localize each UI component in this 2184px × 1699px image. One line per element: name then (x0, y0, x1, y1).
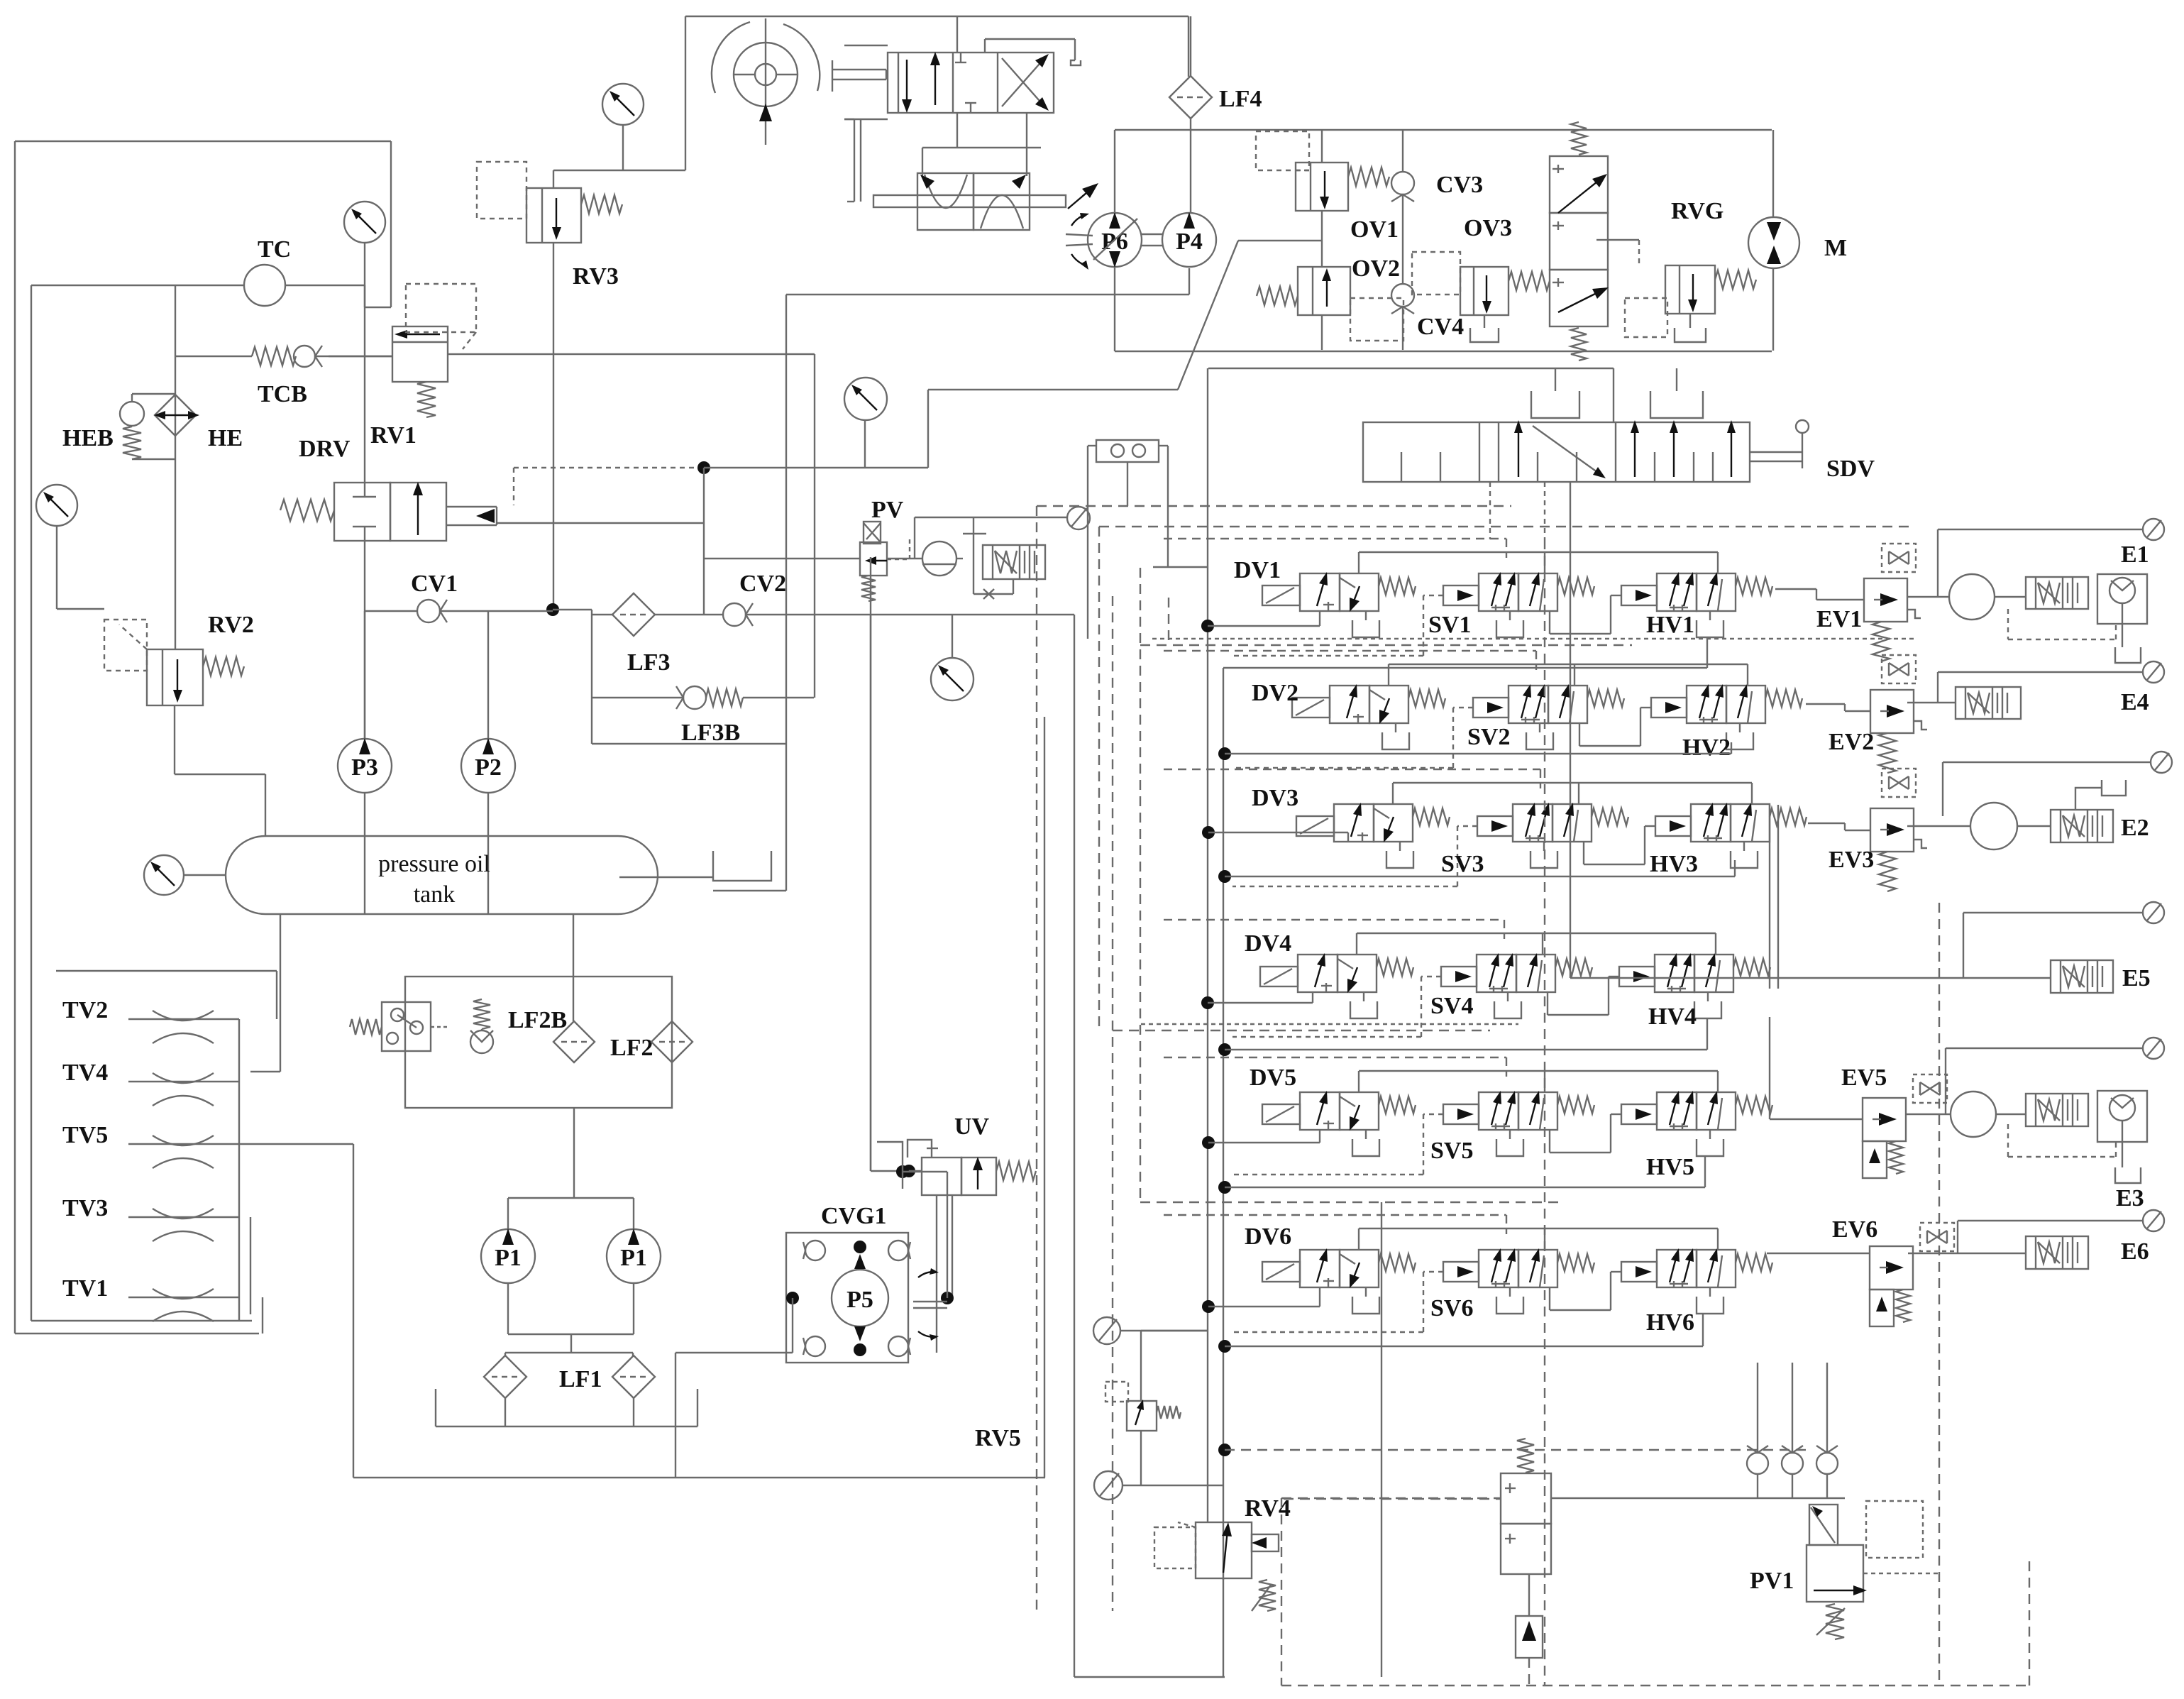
check valve CV4 (1391, 284, 1414, 314)
wire DV6-SV6 pilot dashed (1232, 1272, 1443, 1332)
svg-text:EV1: EV1 (1816, 606, 1862, 632)
wire HV2-EV2 (1806, 704, 1870, 711)
wire dashed v1647 (1168, 598, 1169, 640)
actuator E6 (2026, 1236, 2088, 1269)
throttle TV1 (128, 1289, 239, 1321)
valve HV3 (1691, 803, 1807, 842)
svg-text:RVG: RVG (1671, 198, 1724, 224)
label M (1824, 235, 1847, 261)
node bus1 (1218, 747, 1231, 760)
node UV (903, 1165, 915, 1177)
wire LF3 box (592, 610, 786, 744)
valve HV2 pilot (1651, 698, 1687, 717)
tank pressure oil tank (226, 836, 658, 914)
component P6 fork (1066, 213, 1093, 270)
wire DRV link (497, 522, 704, 524)
valve OV2 (1257, 267, 1403, 341)
check valve CV1 (417, 600, 447, 622)
wire pv1 line left (1281, 1498, 1501, 1686)
wire TV verticals (239, 1019, 263, 1334)
wire swash-P6 arrow (1068, 183, 1098, 209)
svg-text:DV6: DV6 (1245, 1224, 1291, 1250)
wire row5 dashed box (1164, 1057, 1506, 1077)
node bus6 (1202, 1136, 1215, 1149)
wire E5 top (1963, 913, 2143, 978)
valve PV (860, 522, 910, 601)
check valve CV3 (1391, 172, 1414, 202)
valve SV2 (1509, 684, 1624, 723)
wire LF1 tank (436, 1389, 697, 1426)
wire drain y2082 (353, 1477, 1045, 1478)
valve HV1 pilot (1621, 585, 1657, 605)
valve EV1 (1864, 544, 1921, 661)
valve DV4 (1260, 953, 1413, 1018)
node bus9 (1218, 1340, 1231, 1353)
pump P1b (607, 1228, 661, 1283)
svg-text:E4: E4 (2121, 689, 2149, 715)
wire feed1 (1208, 611, 1320, 626)
wire y493 (1115, 351, 1772, 352)
wire HV3 bracket (1731, 842, 1758, 868)
valve RVG relief (1625, 240, 1756, 342)
svg-text:CV1: CV1 (411, 571, 458, 597)
wire SDV drops (1490, 482, 1570, 978)
wire x1227 (870, 615, 871, 1171)
wire P6 bottom (1114, 267, 1115, 351)
wire cyl top (956, 16, 958, 53)
valve EV2 (1870, 655, 1927, 773)
label SV3 (1441, 851, 1484, 877)
wire top loop (685, 16, 1188, 170)
wire TV box top (56, 971, 277, 1019)
wire tank right (619, 876, 713, 878)
label tank1 (378, 851, 490, 877)
wire dashed h909 (1140, 644, 1632, 646)
wire DV3-SV3 pilot dashed (1232, 826, 1477, 886)
wire P6 top (1114, 130, 1115, 213)
filter LF2b (651, 1021, 693, 1062)
wire row2 feedback (1389, 664, 1748, 686)
svg-text:OV2: OV2 (1352, 255, 1400, 282)
wire TC line (31, 285, 365, 286)
check valve CV2 (723, 603, 1074, 626)
label TV3 (62, 1195, 108, 1221)
wire EV6 feed (1767, 1253, 1870, 1254)
wire P1 manifold (508, 1198, 634, 1228)
wire feed6 (1208, 1287, 1320, 1307)
valve RV3 (477, 162, 622, 243)
wire ret6 (1225, 1314, 1703, 1346)
wire E3 bracket (2115, 1142, 2141, 1183)
label RV3 (573, 263, 619, 290)
wire ret1 (1223, 637, 1707, 668)
component PV ebox (974, 545, 1045, 599)
gauge G6 (931, 615, 974, 700)
label DV4 (1245, 930, 1291, 957)
valve SV2 pilot (1473, 698, 1509, 717)
component TC (244, 265, 285, 306)
label RVG (1671, 198, 1724, 224)
valve DV2 (1292, 684, 1445, 749)
label E2 (2121, 815, 2149, 841)
wire SV4 bracket (1494, 992, 1521, 1018)
label HV2 (1682, 735, 1731, 761)
svg-text:TV1: TV1 (62, 1275, 108, 1302)
actuator E2 (2051, 810, 2113, 842)
label CV3 (1436, 172, 1483, 198)
valve RV5 (1105, 1331, 1208, 1485)
wire SV4-HV4 link (1548, 977, 1619, 1015)
wire LF3B line (592, 697, 814, 698)
label EV2 (1829, 729, 1874, 755)
svg-text:E5: E5 (2122, 965, 2151, 991)
wire row6 feedback (1359, 1228, 1718, 1250)
wire OV2 down (1321, 315, 1323, 350)
node CVG1 left (786, 1292, 799, 1304)
label TV4 (62, 1060, 108, 1086)
check valve LF3B (676, 686, 743, 709)
svg-text:P1: P1 (495, 1245, 522, 1271)
test point T1 (1067, 507, 1090, 529)
valve OV3 (1412, 252, 1550, 342)
label TV5 (62, 1122, 108, 1148)
wire RV1 line (329, 285, 392, 483)
wire dashed v2733 (1938, 903, 1940, 1686)
wire feed4 (1208, 992, 1313, 1003)
wire row4 feedback (1357, 933, 1716, 955)
wire outer frame left (15, 141, 391, 1334)
label EV1 (1816, 606, 1862, 632)
throttle TV5 (128, 1136, 239, 1168)
valve DV5 (1262, 1091, 1416, 1156)
filter LF2a (553, 1021, 595, 1062)
test point TE5 (2143, 902, 2164, 923)
label TV2 (62, 997, 108, 1023)
pump P4 (1162, 212, 1216, 267)
label DV5 (1250, 1065, 1296, 1091)
label SV1 (1428, 612, 1471, 638)
valve RV1 (392, 284, 476, 417)
svg-text:OV1: OV1 (1350, 216, 1399, 243)
svg-text:RV2: RV2 (208, 612, 254, 638)
check valve CVG1c (803, 1336, 825, 1356)
label TC (258, 236, 291, 263)
wire bus2 (1223, 668, 1224, 1580)
component SDV lever (1750, 420, 1809, 468)
wire PV feed (704, 558, 860, 559)
valve SV4 (1477, 953, 1592, 992)
wire P3 up (364, 611, 365, 739)
label LF4 (1219, 86, 1262, 112)
svg-text:E3: E3 (2116, 1185, 2144, 1211)
svg-text:SV1: SV1 (1428, 612, 1471, 638)
check valve CVG1a (803, 1241, 825, 1260)
valve EV3 (1870, 769, 1927, 891)
wire CV1 line (365, 610, 592, 611)
wire E6 feed (1908, 1253, 2026, 1254)
svg-text:CV4: CV4 (1417, 314, 1464, 340)
svg-text:LF2: LF2 (610, 1035, 653, 1061)
node CVG1 right (941, 1292, 954, 1304)
svg-text:TCB: TCB (258, 381, 307, 407)
component CVG1 box (786, 1233, 908, 1363)
check valve CVG1d (888, 1336, 910, 1356)
wire ret3 (1225, 860, 1735, 876)
wire SV1 bracket (1496, 611, 1523, 637)
wire TCB line (175, 356, 392, 357)
label LF3B (681, 720, 740, 746)
valve SV6 (1479, 1248, 1594, 1287)
wire diag P4 (1178, 241, 1322, 390)
valve DV6 (1262, 1248, 1416, 1314)
wire dashed v2177 (1544, 539, 1545, 1686)
wire EV5 feed (1770, 1017, 1863, 1119)
wire row1 dashed box (1164, 539, 1506, 558)
wire HV1 bracket (1697, 611, 1724, 637)
wire rod (832, 60, 886, 92)
wire feed3 (1208, 832, 1348, 842)
wire CVG1 left down (675, 1298, 793, 1478)
wire RV4 dashed (1284, 1498, 1501, 1500)
wire CV4 down (1402, 307, 1403, 350)
node bus10 (1218, 1444, 1231, 1456)
wire E3 dashed (2008, 1124, 2116, 1157)
component shuttle block (1088, 440, 1208, 639)
motor M (1748, 130, 1799, 351)
label UV (954, 1114, 990, 1140)
wire LF2 box (405, 977, 672, 1108)
svg-text:HV4: HV4 (1648, 1004, 1697, 1030)
svg-text:P6: P6 (1101, 229, 1128, 255)
valve SDV (1363, 420, 1750, 482)
label CV1 (411, 571, 458, 597)
svg-text:TC: TC (258, 236, 291, 263)
valve bottom 2pos (1501, 1439, 1551, 1686)
svg-text:PV1: PV1 (1750, 1568, 1794, 1594)
component E1 check (2097, 574, 2147, 624)
tank bracket right (713, 851, 771, 881)
component rod bars (844, 119, 861, 202)
node bus7 (1218, 1181, 1231, 1194)
label LF3 (627, 649, 670, 676)
svg-text:E2: E2 (2121, 815, 2149, 841)
wire y415 (786, 294, 1189, 295)
wire DV2-SV2 pilot dashed (1232, 708, 1473, 768)
valve SV3 pilot (1477, 816, 1513, 836)
valve HV6 (1657, 1248, 1772, 1287)
label OV2 (1352, 255, 1400, 282)
node bus0 (1201, 620, 1214, 632)
label LF2B (508, 1007, 567, 1033)
label DRV (299, 436, 351, 462)
wire row3 feedback (1393, 783, 1752, 804)
valve SV4 pilot (1441, 967, 1477, 986)
filter LF1a (484, 1356, 526, 1398)
wire CV3 line (1402, 130, 1403, 284)
component breather (350, 1002, 447, 1051)
svg-text:DV1: DV1 (1234, 557, 1281, 583)
valve EV5 (1863, 1074, 1947, 1178)
svg-text:SV6: SV6 (1430, 1295, 1473, 1321)
label E1 (2121, 541, 2149, 568)
wire E6 top (1958, 1221, 2143, 1253)
svg-text:RV3: RV3 (573, 263, 619, 290)
test point TE4 (2143, 661, 2164, 683)
svg-text:LF3: LF3 (627, 649, 670, 676)
svg-text:SV3: SV3 (1441, 851, 1484, 877)
svg-text:EV6: EV6 (1832, 1216, 1877, 1243)
wire bus header (1208, 368, 1614, 422)
pump P1a (481, 1228, 535, 1283)
valve DV3 (1296, 803, 1450, 868)
wire PV tee (703, 468, 705, 615)
label DV2 (1252, 680, 1298, 706)
valve HV6 pilot (1621, 1262, 1657, 1282)
wire HV4 bracket (1694, 992, 1721, 1018)
label TV1 (62, 1275, 108, 1302)
label CVG1 (821, 1203, 887, 1229)
wire tank bottom right (573, 914, 574, 977)
wire row2 dashed box (1164, 651, 1536, 670)
valve HV4 pilot (1619, 967, 1655, 986)
throttle TV3 (128, 1209, 239, 1241)
valve DRV (280, 482, 497, 541)
label SV2 (1467, 724, 1510, 750)
wire HV1-EV1 (1775, 589, 1864, 600)
label E6 (2121, 1238, 2149, 1265)
label EV6 (1832, 1216, 1877, 1243)
filter LF4 (1169, 16, 1212, 213)
wire row1 feedback (1359, 552, 1718, 573)
accumulator A2 (1970, 803, 2017, 849)
valve RV4 (1154, 1522, 1279, 1611)
node bus3 (1218, 870, 1231, 883)
label RV2 (208, 612, 254, 638)
wire dashed h1443 (1141, 1023, 1518, 1025)
valve SV5 pilot (1443, 1104, 1479, 1124)
wire SV5-HV5 link (1550, 1114, 1621, 1153)
check valve LF2B (470, 999, 493, 1053)
wire RV2 out (175, 705, 265, 836)
actuator E5 (2051, 960, 2113, 993)
wire feed5 (1208, 1130, 1320, 1143)
label OV3 (1464, 215, 1512, 241)
svg-text:EV2: EV2 (1829, 729, 1874, 755)
check valve CVG1b (888, 1241, 910, 1260)
label EV3 (1829, 847, 1874, 873)
wire tpoint line (915, 517, 1067, 559)
svg-text:HEB: HEB (62, 425, 114, 451)
svg-text:DV2: DV2 (1252, 680, 1298, 706)
component PV accumulator (922, 541, 956, 576)
valve SV1 pilot (1443, 585, 1479, 605)
wire E1 feed (1907, 596, 2026, 598)
wire ret2 (1225, 742, 1731, 754)
wire P1 bottom (505, 1283, 634, 1356)
gauge G5 tank (144, 855, 226, 895)
filter LF3 (592, 593, 722, 636)
wire branch vertical x247 (175, 285, 176, 649)
label DV3 (1252, 785, 1298, 811)
wire P3 tank (364, 793, 365, 914)
svg-text:HV3: HV3 (1650, 851, 1698, 877)
wire mid y549 (928, 389, 1178, 390)
gauge G1 top (344, 202, 385, 307)
wire E3 feed (1906, 1048, 2026, 1114)
wire HV2 bracket (1726, 723, 1753, 749)
wire SV6-HV6 link (1550, 1272, 1621, 1310)
node C (697, 461, 710, 474)
pump P5 (832, 1241, 888, 1356)
svg-text:DV5: DV5 (1250, 1065, 1296, 1091)
gauge G3 (602, 84, 644, 170)
valve EV6 (1870, 1223, 1954, 1326)
test point TE3 (2143, 1038, 2164, 1059)
label HV4 (1648, 1004, 1697, 1030)
valve HV3 pilot (1655, 816, 1691, 836)
wire PV out (887, 558, 922, 559)
wire LF2 feed (573, 977, 574, 1021)
svg-text:SDV: SDV (1826, 456, 1875, 482)
svg-text:LF3B: LF3B (681, 720, 740, 746)
wire PV bracket (956, 518, 986, 594)
svg-text:OV3: OV3 (1464, 215, 1512, 241)
svg-text:HV6: HV6 (1646, 1309, 1694, 1336)
wire y183 (1115, 129, 1772, 131)
component P5 shaft (913, 1268, 947, 1341)
wire x1514 down (1074, 615, 1075, 1677)
label PV (871, 497, 904, 523)
wire E4 top (1938, 672, 2143, 703)
wire SV3 bracket (1531, 842, 1557, 868)
component cyl valve (844, 45, 1054, 119)
test point TE1 (2143, 519, 2164, 540)
svg-text:pressure oil: pressure oil (378, 851, 490, 877)
valve HV5 pilot (1621, 1104, 1657, 1124)
wire tank bottom left (250, 914, 280, 1072)
label HV3 (1650, 851, 1698, 877)
check valve T1 (1747, 1363, 1768, 1498)
test point TB2 (1094, 1471, 1223, 1500)
wire bus bottom (1223, 1578, 1224, 1677)
wire SV3-HV3 link (1584, 826, 1655, 864)
node bus8 (1202, 1300, 1215, 1313)
wire cyl bracket (985, 39, 1081, 65)
svg-text:TV2: TV2 (62, 997, 108, 1023)
label E4 (2121, 689, 2149, 715)
svg-text:RV1: RV1 (370, 422, 417, 449)
wire OV1 line (1321, 130, 1323, 267)
component E3 check (2097, 1091, 2147, 1142)
label RV1 (370, 422, 417, 449)
label LF1 (559, 1366, 602, 1392)
valve SV5 (1479, 1091, 1594, 1130)
svg-text:CVG1: CVG1 (821, 1203, 887, 1229)
svg-text:E6: E6 (2121, 1238, 2149, 1265)
wire SV5 bracket (1496, 1130, 1523, 1156)
label DV6 (1245, 1224, 1291, 1250)
wire TV5 out (239, 1144, 353, 1478)
label LF2 (610, 1035, 653, 1061)
wire charge line (704, 390, 928, 468)
wire DV1-SV1 pilot dashed (1232, 595, 1443, 656)
check valve T2 (1782, 1363, 1803, 1498)
wire LF2 down (573, 1108, 575, 1198)
wire DV4-SV4 pilot dashed (1232, 977, 1441, 1037)
node bus2 (1202, 826, 1215, 839)
wire HV3-EV3 (1808, 823, 1870, 830)
wire RV3 top (553, 170, 685, 188)
